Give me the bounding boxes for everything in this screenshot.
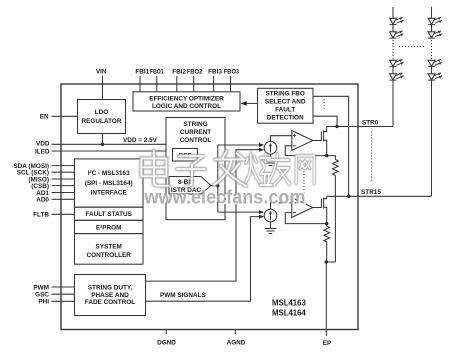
node lower source junction dot [325, 222, 328, 225]
pin AGND stub [234, 330, 236, 334]
svg-text:VDD = 2.5V: VDD = 2.5V [123, 137, 158, 144]
svg-text:www.elecfans.com: www.elecfans.com [144, 187, 306, 208]
dotted ellipsis strings repeat (outside box) [371, 132, 373, 182]
arrowhead into efficiency optimizer [241, 101, 247, 106]
wire DAC net to upper current source [218, 144, 261, 146]
pin FBO1 wire [156, 76, 158, 92]
op-amp U5 minus sign [293, 145, 296, 147]
transistor Q2 drain lead [324, 196, 327, 198]
svg-text:STR15: STR15 [361, 189, 381, 196]
outer chip boundary box [61, 84, 358, 330]
svg-text:(SPI - MSL3164): (SPI - MSL3164) [85, 180, 133, 187]
op-amp U5 plus sign [293, 134, 296, 137]
transistor Q1 source lead [324, 140, 327, 155]
svg-text:MSL4163: MSL4163 [272, 298, 306, 307]
svg-text:EFFICIENCY OPTIMIZER: EFFICIENCY OPTIMIZER [149, 96, 224, 103]
svg-text:LDO: LDO [95, 109, 109, 116]
svg-text:FADE CONTROL: FADE CONTROL [85, 299, 136, 306]
svg-text:INTERFACE: INTERFACE [91, 189, 128, 196]
pin FBO3 wire [230, 76, 232, 92]
resistor R2 lower sense [324, 226, 330, 242]
efficiency optimizer box U2 [133, 92, 240, 111]
svg-text:GSC: GSC [35, 292, 49, 299]
dotted separator between strings [399, 46, 424, 48]
pin FLTB wire [52, 213, 75, 215]
ground symbol lower [265, 229, 277, 234]
svg-text:REGULATOR: REGULATOR [82, 118, 122, 125]
dotted ellipsis channels repeat (between op-amps) [303, 168, 305, 193]
reference REF box [173, 149, 198, 162]
LDO regulator box [78, 100, 126, 134]
svg-text:STRING FBO: STRING FBO [265, 90, 304, 97]
fault status box [75, 207, 144, 220]
svg-text:PWM: PWM [33, 284, 49, 291]
svg-text:EP: EP [323, 340, 332, 347]
LED D5 [428, 17, 442, 24]
svg-text:CONTROL: CONTROL [180, 137, 212, 144]
node EP junction dot [325, 260, 328, 263]
ground symbol upper [265, 161, 277, 166]
pin DGND stub [165, 330, 167, 334]
pin FBO2 wire [193, 76, 195, 92]
op-amp U6 minus sign [293, 212, 296, 214]
LED D1 [390, 17, 404, 24]
svg-text:FAULT: FAULT [275, 106, 295, 113]
wire source node to resistor R2 [326, 224, 328, 226]
node upper source junction dot [325, 154, 328, 157]
svg-text:DETECTION: DETECTION [267, 114, 304, 121]
svg-text:PHASE AND: PHASE AND [91, 292, 129, 299]
LED D4 [390, 73, 404, 80]
wire lower current source output to op-amp [271, 203, 292, 209]
pin VIN wire [102, 76, 104, 100]
pin FBI2 wire [176, 76, 178, 92]
pin FBI1 wire [139, 76, 141, 92]
node STR15 junction dot [347, 195, 350, 198]
svg-text:FBO1: FBO1 [150, 69, 164, 76]
wire upper current source to ground [270, 154, 272, 160]
op-amp U5 upper triangle [292, 131, 313, 151]
wire lower op-amp feedback [285, 213, 326, 224]
wire resistor R1 to EP node [326, 176, 335, 263]
resistor R1 upper sense [333, 160, 339, 176]
wire FBO sense 0 [313, 116, 337, 126]
wire LED string 1 segments [392, 7, 394, 127]
LED D8 [428, 73, 442, 80]
svg-text:FBI2: FBI2 [172, 69, 186, 76]
svg-text:CURRENT: CURRENT [180, 129, 211, 136]
node VDD junction dot [101, 143, 104, 146]
transistor Q2 gate bar [320, 199, 322, 209]
string current control box [166, 118, 225, 220]
arrowhead into upper current source (DAC) [259, 143, 264, 147]
current source I2 lower circle [264, 209, 277, 222]
watermark chinese characters [142, 151, 315, 186]
wire upper op-amp feedback [285, 146, 326, 156]
arrowhead into upper current source (PWM) [259, 148, 264, 152]
transistor Q1 drain lead [324, 127, 327, 132]
I2C/SPI interface box U3 [75, 159, 144, 207]
pin SCL (SCK) wire [52, 171, 75, 173]
svg-text:CONTROLLER: CONTROLLER [87, 252, 132, 259]
wire lower current source to ground [270, 222, 272, 229]
svg-text:PHI: PHI [38, 299, 49, 306]
pin AD1 wire [52, 192, 75, 194]
LED D3 [390, 59, 404, 66]
svg-text:VDD: VDD [36, 140, 50, 147]
wire upper op-amp output to gate [313, 140, 322, 142]
current source I1 internal arrow [270, 145, 272, 153]
wire net STR15 external [358, 195, 432, 197]
EEPROM box [75, 220, 144, 233]
pin SDA (MOSI) wire [52, 165, 75, 167]
transistor Q1 gate bar [320, 132, 322, 142]
dotted LED string 2 continuation [431, 40, 433, 60]
svg-text:LOGIC AND CONTROL: LOGIC AND CONTROL [152, 103, 221, 110]
pin AD0 wire [52, 198, 75, 200]
svg-text:I²C - MSL3163: I²C - MSL3163 [88, 170, 130, 177]
DAC U4 8-bit ISTR DAC pentagon [169, 177, 211, 195]
svg-text:STR0: STR0 [362, 120, 379, 127]
svg-text:MSL4164: MSL4164 [272, 308, 306, 317]
wire LDO output to VDD rail [102, 134, 104, 145]
svg-text:FBO2: FBO2 [187, 69, 203, 76]
pin (MISO) wire [52, 178, 75, 180]
transistor Q2 channel bar [323, 198, 325, 209]
pin (CSB) wire [52, 185, 75, 187]
svg-text:STRING: STRING [183, 121, 207, 128]
dotted LED string 1 continuation [392, 40, 394, 60]
arrowhead into lower current source (PWM) [259, 215, 264, 219]
svg-text:EN: EN [40, 114, 49, 121]
wire DAC net vertical [217, 145, 219, 212]
wire FBO sense 15 [313, 96, 349, 196]
wire net STR0 internal [327, 126, 358, 128]
LED D7 [428, 59, 442, 66]
wire EP net to pad [325, 262, 327, 336]
LED D2 [390, 31, 404, 38]
svg-text:FBI3: FBI3 [208, 69, 222, 76]
svg-text:FAULT STATUS: FAULT STATUS [85, 211, 132, 218]
svg-text:SELECT AND: SELECT AND [265, 98, 306, 105]
svg-text:STRING DUTY,: STRING DUTY, [88, 285, 133, 292]
string duty phase fade control box [75, 275, 146, 316]
pin GSC wire [52, 293, 75, 295]
wire PWM signals lower [146, 217, 261, 302]
wire lower op-amp output to gate [313, 207, 322, 209]
op-amp U6 lower triangle [292, 198, 313, 218]
dotted ellipsis channels repeat (right of FBO box) [323, 99, 325, 111]
svg-text:FBO3: FBO3 [224, 69, 240, 76]
node STR0 junction dot [335, 125, 338, 128]
svg-text:VIN: VIN [96, 69, 107, 76]
system controller box [75, 234, 144, 265]
wire resistor R2 to EP node [326, 242, 328, 262]
svg-text:PWM SIGNALS: PWM SIGNALS [160, 292, 207, 299]
transistor Q2 source lead [324, 207, 327, 223]
svg-text:AGND: AGND [227, 339, 246, 346]
op-amp U6 plus sign [293, 201, 296, 204]
pin PHI wire [52, 300, 75, 302]
current source I2 internal arrow [270, 212, 272, 220]
wire DAC output to node [211, 185, 218, 187]
svg-text:FBI1: FBI1 [135, 69, 149, 76]
svg-text:ILED: ILED [35, 148, 50, 155]
wire DAC net to lower current source [218, 211, 261, 213]
wire ILED [52, 150, 167, 152]
pin PWM wire [52, 286, 75, 288]
wire net STR15 internal [327, 195, 358, 197]
pin FBI3 wire [213, 76, 215, 92]
svg-text:E²PROM: E²PROM [96, 224, 122, 231]
wire VDD rail [52, 143, 167, 145]
svg-text:FLTB: FLTB [33, 212, 49, 219]
svg-text:AD0: AD0 [36, 197, 49, 204]
LED D6 [428, 31, 442, 38]
wire FBO-select to efficiency optimizer [246, 102, 258, 104]
pin EN wire [52, 115, 78, 117]
wire LED string 2 segments [431, 7, 433, 196]
wire PWM signals upper [146, 150, 261, 281]
wire net STR0 external [358, 126, 393, 128]
current source I1 upper circle [264, 142, 277, 155]
svg-text:DGND: DGND [157, 339, 176, 346]
node DAC output junction dot [216, 184, 219, 187]
wire upper current source output to op-amp [271, 136, 292, 142]
wire source node to resistor R1 [327, 156, 336, 160]
svg-text:SYSTEM: SYSTEM [96, 244, 122, 251]
transistor Q1 channel bar [323, 131, 325, 142]
string FBO select and fault detection box [258, 88, 314, 123]
arrowhead into lower current source (DAC) [259, 210, 264, 214]
